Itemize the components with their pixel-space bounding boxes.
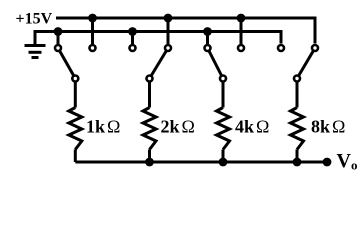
junction on +15V rail above S1 (88, 14, 97, 23)
junction on bottom rail at R2 (145, 158, 154, 167)
S4 right throw contact (312, 45, 318, 51)
S2 right throw contact (165, 45, 171, 51)
wire: stub from +15V rail to S1 right throw (crosses ground rail) (91, 18, 94, 44)
switch S4 blade (thrown to +15V side) (297, 48, 315, 79)
wire: stub from ground rail to S1 left throw (57, 32, 60, 45)
resistor R4 8k ohm (291, 108, 304, 150)
S1 left throw contact (55, 45, 61, 51)
S1 right throw contact (90, 45, 96, 51)
wire: stub from +15V rail to S2 right throw (crosses ground rail) (167, 18, 170, 44)
wire: ground rail with left bend down to ground symbol and right bend down to S4 left throw (35, 32, 281, 46)
svg-text:4kΩ: 4kΩ (235, 117, 269, 137)
S4 pole contact (294, 76, 300, 82)
wire: R3 bottom lead (222, 150, 225, 163)
svg-text:+15V: +15V (16, 11, 53, 28)
switch S1 blade (thrown to ground side) (58, 48, 75, 79)
junction on bottom rail at R3 (219, 158, 228, 167)
wire: S4 pole to resistor R4 (296, 82, 299, 108)
junction on +15V rail above S3 (237, 14, 246, 23)
wire: +15V top rail with right bend down to switch S4 throw (56, 18, 315, 44)
wire: stub from ground rail to S3 left throw (206, 32, 209, 45)
junction on +15V rail above S2 (164, 14, 173, 23)
wire: R2 bottom lead (148, 150, 151, 163)
wire: bottom output rail to Vo terminal (75, 161, 327, 164)
svg-text:2kΩ: 2kΩ (161, 117, 195, 137)
ground symbol (25, 46, 46, 58)
resistor R3 4k ohm (217, 108, 230, 150)
svg-text:1kΩ: 1kΩ (86, 117, 120, 137)
resistor R1 1k ohm (69, 108, 82, 150)
wire: S1 pole to resistor R1 (74, 82, 77, 108)
resistor R2 2k ohm (143, 108, 156, 150)
wire: R4 bottom lead (296, 150, 299, 163)
S4 left throw contact (278, 45, 284, 51)
svg-text:8kΩ: 8kΩ (311, 117, 345, 137)
S3 pole contact (220, 76, 226, 82)
junction on ground rail at S1 (54, 27, 63, 36)
switch contact circles (55, 45, 318, 82)
switch S3 blade (thrown to ground side) (208, 48, 224, 79)
junction on ground rail at S2 (128, 27, 137, 36)
wire: R1 bottom lead (74, 150, 77, 163)
output terminal dot Vo (323, 158, 332, 167)
S1 pole contact (72, 76, 78, 82)
wire: S3 pole to resistor R3 (222, 82, 225, 108)
wire: S2 pole to resistor R2 (148, 82, 151, 108)
junction on bottom rail at R4 (293, 158, 302, 167)
wire: stub from ground rail to S2 left throw (131, 32, 134, 45)
switch S2 blade (thrown to +15V side) (150, 48, 169, 79)
S3 left throw contact (205, 45, 211, 51)
svg-text:Vo: Vo (337, 150, 358, 173)
S2 left throw contact (130, 45, 136, 51)
wire: stub from +15V rail to S3 right throw (crosses ground rail) (240, 18, 243, 44)
S3 right throw contact (238, 45, 244, 51)
S2 pole contact (147, 76, 153, 82)
junction on ground rail at S3 (203, 27, 212, 36)
